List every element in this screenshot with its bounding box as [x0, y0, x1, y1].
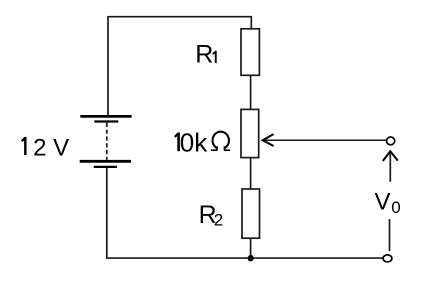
label 10k digit 1 (custom glyph) — [175, 133, 180, 152]
junction node dot — [248, 255, 254, 262]
battery B1 top cell long plate — [80, 115, 131, 118]
label 12 V digit 1 (custom glyph) — [22, 137, 27, 155]
battery B1 bottom cell long plate — [80, 160, 131, 163]
wire R1 top lead — [250, 16, 252, 29]
svg-text:2 V: 2 V — [33, 134, 69, 161]
V0 arrowhead up — [383, 151, 398, 161]
label Omega (serif style, custom drawing) — [211, 132, 230, 152]
wire top horizontal — [108, 16, 251, 18]
wire battery negative lead — [106, 167, 108, 259]
svg-text:R: R — [195, 41, 213, 69]
wire bottom horizontal — [106, 257, 383, 259]
wire battery positive lead — [107, 16, 109, 116]
battery B1 top cell short plate — [94, 120, 118, 122]
battery B1 bottom cell short plate — [94, 166, 117, 168]
resistor R2 — [242, 189, 260, 238]
terminal top right open circle — [387, 137, 395, 145]
label R1 subscript 1 (custom glyph) — [213, 51, 217, 63]
wire potentiometer to R2 — [250, 158, 252, 189]
svg-text:R2: R2 — [199, 201, 224, 230]
potentiometer wiper arrow wire — [264, 139, 386, 141]
V0 arrow shaft upper — [389, 153, 391, 182]
svg-text:V0: V0 — [375, 189, 401, 218]
potentiometer 10k body — [241, 109, 259, 157]
resistor R1 — [241, 29, 259, 76]
terminal bottom right open circle — [383, 255, 392, 262]
wire R2 bottom lead — [250, 238, 252, 258]
potentiometer wiper arrowhead — [263, 134, 274, 146]
battery B1 dashed cell link — [106, 123, 108, 160]
wire R1 to potentiometer — [250, 75, 252, 109]
V0 shaft lower — [389, 219, 391, 251]
svg-text:0k: 0k — [180, 128, 208, 158]
